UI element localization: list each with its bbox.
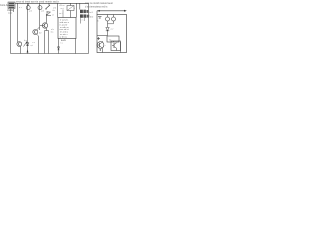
transistor Q4 — [97, 41, 104, 53]
svg-text:a r: a r — [19, 6, 22, 9]
label near branch — [19, 6, 22, 9]
svg-text:ersa sd tewtr aa rrts onsd rme: ersa sd tewtr aa rrts onsd rmestr sad.tr — [16, 0, 59, 3]
pointer arrow line — [97, 10, 127, 12]
label near Q3 — [24, 40, 30, 46]
wire branch at x=39.5 — [39, 3, 41, 30]
thyristor SCR1 — [26, 43, 29, 46]
wire K2 to Q5 — [113, 41, 115, 42]
svg-text:srat ra onwtd rastesd aest: srat ra onwtd rastesd aest — [85, 2, 113, 5]
svg-text:sa t: sa t — [59, 12, 63, 15]
wire top bus — [15, 2, 89, 4]
svg-text:sr dt ea: sr dt ea — [60, 35, 68, 38]
transistor Q2 — [33, 27, 40, 54]
junction dot below Q4 — [100, 49, 101, 50]
enclosure box right section — [97, 15, 127, 53]
rectifier block BR1 — [67, 3, 76, 17]
label near Q1 collector — [52, 9, 63, 16]
label near zener — [111, 29, 115, 31]
diode D3 on left lead — [58, 47, 60, 50]
label near fuse — [53, 8, 57, 10]
wire left rail — [10, 9, 12, 54]
marks left of K2 — [97, 37, 100, 40]
svg-text:xast: xast — [8, 11, 12, 14]
zener D2 — [106, 24, 109, 36]
wire branch at x=27.5 — [27, 3, 29, 53]
wire lamp leads joined — [108, 23, 114, 25]
wire right rail of left schematic — [88, 3, 90, 53]
arrowhead at bottom of x=27.5 wire — [27, 50, 29, 53]
relay K1 block row 1 — [80, 10, 89, 13]
wire bottom bus — [11, 53, 89, 55]
wire PS1 second lead — [13, 9, 15, 13]
wire stub left edge up — [96, 11, 98, 15]
svg-text:xs t: xs t — [61, 7, 65, 10]
label near Q1 emitter — [51, 29, 55, 34]
note text above top bus — [16, 0, 59, 3]
pot arrow near Q3 — [24, 42, 28, 47]
wire Q1 emitter to bottom bus — [45, 31, 49, 54]
wire right inner — [120, 42, 122, 53]
labels right of relay K1 — [90, 11, 94, 18]
lamp L2 — [112, 15, 116, 24]
wire bus to relay K1 — [79, 3, 81, 9]
label above Q3 — [31, 41, 36, 47]
wire horizontal mid right — [97, 35, 107, 37]
lamp DS1 — [26, 3, 33, 12]
transistor Q1 — [40, 14, 48, 31]
relay K1 block row 2 — [80, 14, 89, 17]
switch S1 — [45, 3, 50, 13]
wire second relay lead — [84, 18, 86, 21]
lamp DS2 — [38, 6, 45, 13]
label under PS1 — [7, 9, 14, 14]
title text right section line 2 — [85, 5, 108, 8]
component below U1 — [61, 39, 67, 45]
wire branch at x=17.5 — [17, 3, 19, 42]
battery B1 — [98, 17, 102, 23]
IC note box U1 — [58, 18, 76, 39]
title text right section line 1 — [85, 2, 113, 5]
svg-text:c: c — [105, 45, 106, 47]
wire U1 right lead to bus — [74, 39, 76, 54]
diode D1 — [46, 12, 51, 16]
lamp L1 — [106, 15, 110, 25]
svg-text:a+rs: a+rs — [61, 39, 67, 42]
wire below relay — [80, 18, 82, 23]
transistor Q3 — [17, 42, 22, 54]
wire branch at x=57.5 — [57, 3, 59, 17]
wire bus to U1 right top — [75, 3, 77, 17]
boxed transistor Q5 — [111, 41, 121, 51]
wire U1 left lead to bus — [58, 39, 60, 54]
relay box K2 — [107, 36, 119, 42]
label cluster near node — [60, 4, 66, 17]
svg-text:d sa termotssa erd ts: d sa termotssa erd ts — [85, 5, 108, 8]
power source box PS1 — [8, 2, 15, 9]
node label: AC input text — [0, 4, 9, 7]
label between Q4 and Q5 — [105, 45, 106, 47]
label below relay K1 — [81, 19, 84, 22]
label near Q2 — [39, 33, 42, 35]
svg-text:r1k a: r1k a — [60, 4, 66, 7]
